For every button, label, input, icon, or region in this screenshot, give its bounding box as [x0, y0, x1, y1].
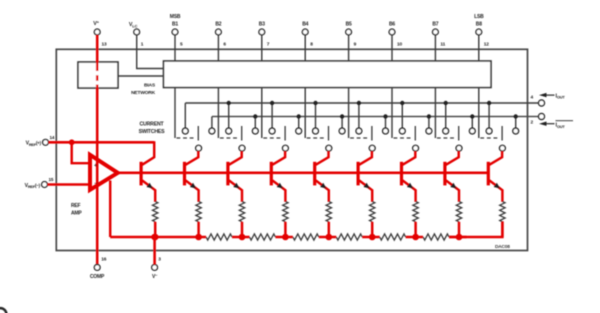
svg-text:LSB: LSB [474, 14, 484, 20]
pin 16 COMP terminal [94, 265, 100, 271]
svg-text:6: 6 [223, 41, 226, 47]
bit B8 switch drive wire [478, 88, 480, 139]
junction bit B7 to IOUT-bar rail [470, 114, 474, 118]
bit B6 switch arm [414, 126, 416, 141]
resistor R5 [370, 201, 375, 237]
bit B5 switch drive wire [348, 88, 350, 139]
bit B6 switch left contact [399, 103, 405, 134]
svg-text:COMP: COMP [90, 274, 105, 280]
svg-text:14: 14 [50, 135, 55, 140]
transistor Q1 [185, 151, 199, 202]
svg-text:10: 10 [397, 41, 402, 47]
page caption fragment (cut letter) [0, 308, 6, 313]
svg-text:V−: V− [152, 272, 158, 280]
junction bit B5 to IOUT rail [357, 101, 361, 105]
bit B5 switch left contact [356, 103, 362, 134]
svg-text:CURRENT: CURRENT [140, 122, 165, 128]
bit B2 switch drive wire [217, 88, 219, 139]
bit B3 switch left contact [269, 103, 275, 134]
svg-text:B3: B3 [259, 21, 265, 27]
junction VREF(+) input node [69, 139, 75, 145]
transistor Qref [141, 141, 155, 202]
svg-text:IOUT: IOUT [556, 123, 566, 129]
bit B8 switch arm [501, 126, 503, 141]
svg-text:MSB: MSB [170, 14, 181, 20]
bit B5 switch dashed link [350, 137, 369, 139]
svg-text:4: 4 [531, 94, 534, 100]
svg-text:12: 12 [484, 41, 489, 47]
label BIAS NETWORK [131, 83, 156, 96]
pin 1 VLC terminal [134, 29, 164, 68]
wire VREF(-) to amp inverting input [47, 183, 90, 186]
bit B5 switch right contact [383, 117, 389, 134]
top bus box (switch drive box) [164, 61, 492, 88]
svg-text:REF: REF [71, 203, 81, 209]
svg-text:1: 1 [141, 41, 144, 47]
IOUT arrow [539, 93, 555, 97]
junction bit B6 to IOUT-bar rail [427, 114, 431, 118]
junction R7 on bottom rail [456, 234, 463, 241]
svg-text:AMP: AMP [71, 211, 82, 217]
outer IC boundary box [56, 49, 527, 250]
pin 6 bit B2 terminal [216, 29, 222, 61]
svg-text:VREF(−): VREF(−) [25, 183, 41, 189]
op-amp U1 reference amplifier [90, 155, 118, 190]
bit B3 switch right contact [296, 117, 302, 134]
bit B7 switch right contact [469, 117, 475, 134]
pin 15 VREF(-) terminal [42, 182, 48, 188]
junction bit B2 to IOUT rail [227, 101, 231, 105]
bit B7 switch dashed link [437, 137, 456, 139]
junction V- on bottom rail [151, 234, 158, 241]
ladder resistor R (between bit 5 and bit 6 legs) [380, 234, 406, 240]
label REF AMP [71, 203, 82, 217]
bit B1 switch right contact [209, 117, 215, 134]
bit B2 switch dashed link [220, 137, 239, 139]
svg-text:−: − [94, 181, 97, 187]
svg-text:B5: B5 [346, 21, 352, 27]
junction bit B8 to IOUT-bar rail [514, 114, 518, 118]
bit B4 switch arm [328, 126, 330, 141]
transistor Q5 [358, 151, 372, 202]
bit B4 switch dashed link [307, 137, 326, 139]
bit B1 switch arm [197, 126, 199, 141]
pin 9 bit B5 terminal [346, 29, 352, 61]
junction bit B6 to IOUT rail [400, 101, 404, 105]
bit B3 switch drive wire [261, 88, 263, 139]
junction bit B3 to IOUT-bar rail [297, 114, 301, 118]
junction bit B5 to IOUT-bar rail [383, 114, 387, 118]
resistor Rref [153, 201, 158, 237]
svg-text:B8: B8 [476, 21, 482, 27]
transistor Q8 [488, 151, 502, 202]
bit B4 switch right contact [339, 117, 345, 134]
bit B8 switch left contact [486, 103, 492, 134]
junction R2 on bottom rail [239, 234, 246, 241]
svg-text:8: 8 [310, 41, 313, 47]
svg-text:B1: B1 [172, 21, 178, 27]
junction Rref on bottom rail [152, 234, 159, 241]
pin 12 bit B8 terminal [476, 29, 482, 61]
junction bit B8 to IOUT rail [487, 101, 491, 105]
red base rail from amp output [116, 172, 489, 175]
svg-text:3: 3 [158, 256, 161, 262]
junction R3 on bottom rail [282, 234, 289, 241]
bit B8 switch pole contact [500, 145, 506, 151]
wire node to amp non-inverting input [72, 142, 91, 163]
bit B3 switch dashed link [263, 137, 282, 139]
bit B4 switch drive wire [304, 88, 306, 139]
IOUT-bar rail (to pin 2) [212, 116, 539, 118]
wire V+ supply line (pin 13 to COMP, dashed in bias box) [96, 35, 99, 265]
bit B4 switch pole contact [326, 145, 332, 151]
bit B8 switch dashed link [480, 137, 499, 139]
svg-text:9: 9 [354, 41, 357, 47]
ladder resistor R (between bit 3 and bit 4 legs) [293, 234, 319, 240]
svg-text:NETWORK: NETWORK [131, 90, 156, 96]
resistor R7 [456, 201, 461, 237]
svg-text:B2: B2 [215, 21, 221, 27]
resistor R2 [239, 201, 244, 237]
bit B4 switch left contact [313, 103, 319, 134]
label CURRENT SWITCHES [139, 122, 166, 135]
svg-text:SWITCHES: SWITCHES [139, 129, 166, 135]
resistor R6 [413, 201, 418, 237]
svg-text:B6: B6 [389, 21, 395, 27]
pin 8 bit B4 terminal [302, 29, 308, 61]
svg-text:BIAS: BIAS [144, 83, 156, 89]
bit B2 switch left contact [226, 103, 232, 134]
bias network box [78, 62, 118, 88]
junction bit B3 to IOUT rail [270, 101, 274, 105]
bit B6 switch dashed link [394, 137, 413, 139]
pin 14 VREF(+) terminal [43, 139, 49, 145]
bit B2 switch right contact [252, 117, 258, 134]
red bottom emitter rail [110, 221, 502, 237]
wire amp tail to bottom rail [109, 181, 111, 238]
svg-text:13: 13 [102, 41, 107, 47]
bit B1 switch pole contact [196, 145, 202, 151]
junction R6 on bottom rail [412, 234, 419, 241]
pin 11 bit B7 terminal [433, 29, 439, 61]
wire VREF(+) to feedback node [48, 141, 154, 144]
svg-text:2: 2 [531, 120, 534, 126]
transistor Q6 [402, 151, 416, 202]
bit B3 switch arm [284, 126, 286, 141]
pin 2 IOUT-bar terminal [539, 114, 545, 120]
resistor R4 [326, 201, 331, 237]
resistor R3 [283, 201, 288, 237]
bit B1 switch left contact [182, 103, 188, 134]
svg-text:VREF(+): VREF(+) [26, 141, 42, 147]
bit B2 switch arm [241, 126, 243, 141]
bit B5 switch arm [371, 126, 373, 141]
label B1 [170, 14, 181, 27]
transistor Q3 [271, 151, 285, 202]
IOUT rail (to pin 4) [185, 102, 538, 104]
bit B8 switch right contact [513, 117, 519, 134]
pin 10 bit B6 terminal [389, 29, 395, 61]
svg-text:B7: B7 [432, 21, 438, 27]
svg-text:B4: B4 [302, 21, 308, 27]
pin 7 bit B3 terminal [259, 29, 265, 61]
IOUT-bar arrow [539, 122, 555, 126]
svg-text:IOUT: IOUT [556, 93, 566, 99]
wire V- to bottom rail [153, 237, 156, 265]
resistor R8 [500, 201, 505, 237]
svg-text:16: 16 [101, 256, 106, 262]
junction R5 on bottom rail [369, 234, 376, 241]
bit B7 switch arm [458, 126, 460, 141]
pin 5 bit B1 terminal [172, 29, 178, 61]
ladder resistor R (between bit 6 and bit 7 legs) [423, 234, 449, 240]
svg-text:V+: V+ [93, 19, 99, 27]
svg-text:DAC08: DAC08 [495, 244, 510, 250]
svg-text:+: + [94, 163, 97, 169]
ladder resistor R (between bit 2 and bit 3 legs) [250, 234, 276, 240]
bit B6 switch right contact [426, 117, 432, 134]
ladder resistor R (between bit 1 and bit 2 legs) [206, 234, 232, 240]
pin 4 IOUT terminal [539, 100, 545, 106]
resistor R1 [196, 201, 201, 237]
svg-text:11: 11 [440, 41, 445, 47]
svg-text:VLC: VLC [129, 22, 138, 28]
bit B2 switch pole contact [239, 145, 245, 151]
svg-text:5: 5 [180, 41, 183, 47]
junction bit B2 to IOUT-bar rail [253, 114, 257, 118]
label IOUT-bar [556, 121, 574, 129]
ladder resistor R (between bit 4 and bit 5 legs) [336, 234, 362, 240]
bit B5 switch pole contact [369, 145, 375, 151]
junction R4 on bottom rail [326, 234, 333, 241]
label B8 [474, 14, 484, 27]
junction R1 on bottom rail [195, 234, 202, 241]
bit B1 switch dashed link [177, 137, 196, 139]
svg-text:15: 15 [49, 177, 54, 182]
transistor Q2 [228, 151, 242, 202]
junction bit B7 to IOUT rail [444, 101, 448, 105]
bit B3 switch pole contact [283, 145, 289, 151]
bit B7 switch drive wire [434, 88, 436, 139]
junction bit B4 to IOUT-bar rail [340, 114, 344, 118]
bit B6 switch pole contact [413, 145, 419, 151]
wire: bias box to bus box [118, 75, 164, 77]
bit B6 switch drive wire [391, 88, 393, 139]
transistor Q7 [445, 151, 459, 202]
pin 3 V- terminal [152, 265, 158, 271]
junction bit B4 to IOUT rail [313, 101, 317, 105]
bit B7 switch left contact [443, 103, 449, 134]
svg-text:7: 7 [267, 41, 270, 47]
bit B1 switch drive wire [174, 88, 176, 139]
transistor Q4 [315, 151, 329, 202]
bit B7 switch pole contact [456, 145, 462, 151]
pin 13 V+ terminal [94, 29, 100, 35]
